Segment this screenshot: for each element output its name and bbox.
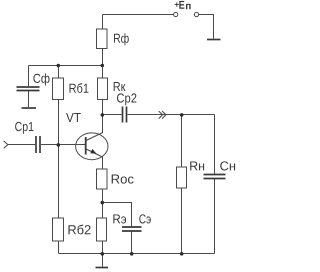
input chevron bbox=[4, 141, 8, 149]
node output-Rn junction bbox=[180, 113, 184, 117]
terminal +Eп left circle bbox=[174, 12, 178, 16]
capacitor Сн plates bbox=[204, 174, 226, 176]
wire node to Ce branch bbox=[103, 203, 132, 227]
wire Rb1 to base node to Rb2 bbox=[58, 100, 60, 219]
capacitor Сф plates bbox=[17, 86, 40, 88]
node filter-Rb1 junction bbox=[57, 64, 61, 68]
wire Rb2 bottom lead bbox=[58, 241, 60, 254]
wire bottom rail bbox=[59, 253, 215, 255]
wire Roc to emitter divider node bbox=[102, 189, 104, 218]
node Ce-bottom junction bbox=[130, 252, 134, 256]
ground (power) bbox=[207, 39, 221, 41]
capacitor Ср2 plates bbox=[122, 107, 124, 123]
wire emitter to Roc bbox=[102, 157, 104, 169]
transistor VT emitter line bbox=[86, 149, 103, 157]
resistor Rэ bbox=[97, 218, 107, 241]
label Ср2 bbox=[117, 93, 136, 105]
transistor VT emitter arrow bbox=[90, 149, 96, 154]
node collector junction bbox=[101, 113, 105, 117]
wire input to Cp1 bbox=[8, 144, 36, 146]
output chevron 2 bbox=[162, 111, 166, 119]
label +Eп п bbox=[186, 4, 191, 9]
resistor Rф bbox=[97, 29, 108, 49]
capacitor Ср1 plates bbox=[35, 136, 37, 153]
resistor Rб1 bbox=[53, 78, 64, 100]
wire Re bottom lead bbox=[102, 241, 104, 254]
wire Rn bottom lead bbox=[181, 188, 183, 254]
label Сэ bbox=[139, 214, 150, 223]
output chevron 1 bbox=[159, 111, 163, 119]
ground (Cf) bbox=[22, 107, 37, 109]
label Сн bbox=[220, 161, 235, 170]
label Rк bbox=[114, 82, 126, 91]
wire Ce bottom lead bbox=[131, 232, 133, 254]
wire top rail to +Ep terminal bbox=[103, 14, 174, 16]
node ground junction bbox=[101, 252, 105, 256]
wire from right terminal to ground bbox=[199, 15, 214, 39]
wire output corner down to Cn bbox=[214, 115, 216, 175]
label Rб2 bbox=[68, 225, 90, 235]
wire horizontal filter node bbox=[29, 65, 103, 67]
label Rос bbox=[112, 175, 134, 184]
resistor Rос bbox=[97, 169, 108, 189]
transistor VT base bar bbox=[85, 137, 87, 155]
wire Rf top lead bbox=[102, 15, 104, 30]
node emitter divider junction bbox=[101, 201, 105, 205]
transistor VT collector line bbox=[86, 133, 103, 141]
label Rф bbox=[114, 33, 129, 45]
wire Cn bottom lead bbox=[214, 179, 216, 254]
label +Eп E bbox=[179, 1, 184, 9]
label +Eп plus bbox=[175, 2, 179, 6]
node base junction bbox=[57, 143, 61, 147]
label Сф bbox=[33, 73, 49, 85]
node Rn-bottom junction bbox=[180, 252, 184, 256]
node filter-Rk junction bbox=[101, 64, 105, 68]
wire Rf bottom lead bbox=[102, 49, 104, 66]
wire Rn top lead bbox=[181, 115, 183, 168]
ground (main) bbox=[96, 267, 109, 269]
wire Rb1 top lead bbox=[58, 66, 60, 79]
wire Cp2 to output node bbox=[128, 114, 215, 116]
terminal +Eп right circle bbox=[194, 12, 198, 16]
wire Cf bottom lead bbox=[28, 91, 30, 107]
wire Rk to collector node bbox=[102, 100, 104, 134]
wire collector node to Cp2 bbox=[103, 114, 122, 116]
label Ср1 bbox=[15, 122, 33, 134]
resistor Rк bbox=[98, 78, 108, 100]
resistor Rб2 bbox=[53, 218, 64, 241]
wire Rk top lead bbox=[102, 66, 104, 79]
label VT bbox=[66, 113, 81, 122]
wire Cp1 to base bbox=[41, 144, 86, 146]
wire main ground stub bbox=[102, 254, 104, 267]
resistor Rн bbox=[177, 167, 187, 188]
transistor VT body circle bbox=[76, 133, 108, 160]
label Rэ bbox=[113, 214, 126, 223]
capacitor Сэ plates bbox=[122, 226, 142, 228]
label Rб1 bbox=[70, 83, 89, 93]
wire Cf top lead bbox=[28, 66, 30, 87]
label Rн bbox=[190, 161, 204, 170]
